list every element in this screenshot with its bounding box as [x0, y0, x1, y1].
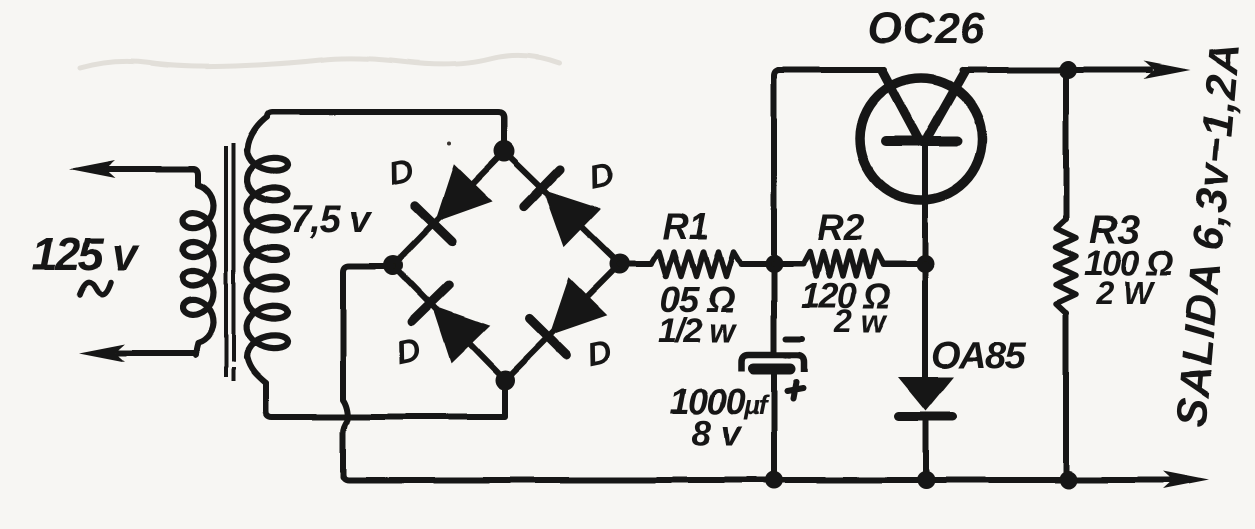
- wire capacitor to bottom rail: [771, 369, 777, 480]
- capacitor minus sign: [786, 336, 802, 342]
- ink speck: [447, 141, 451, 145]
- bridge node left: [383, 255, 403, 275]
- svg-text:2 W: 2 W: [1095, 275, 1156, 311]
- bottom rail node at OA85 branch: [917, 471, 935, 489]
- svg-text:125 v: 125 v: [32, 228, 140, 280]
- bottom rail node at R3 branch: [1059, 471, 1077, 489]
- transformer primary winding: [183, 169, 214, 355]
- transformer secondary winding: [247, 117, 288, 383]
- bottom rail node at capacitor branch: [765, 471, 783, 489]
- diode D (bridge bottom-right): [530, 277, 608, 355]
- diode OA85: [898, 377, 954, 417]
- wire secondary bottom to bridge bottom node: [266, 380, 505, 417]
- wire node down to diode OA85: [922, 264, 928, 378]
- wire bridge left node to bottom rail (with crossover jog): [343, 266, 393, 477]
- diode D (bridge top-right): [524, 169, 602, 247]
- node R1/C1/R2 junction: [765, 255, 783, 273]
- wire secondary top to bridge top node: [267, 112, 504, 151]
- transistor U1 OC26: [860, 69, 982, 200]
- transformer core: [226, 143, 234, 381]
- wire junction up to top rail: [774, 70, 780, 264]
- faint pencil smudge top: [80, 55, 560, 68]
- wire junction down to capacitor: [771, 264, 777, 352]
- bridge node top: [494, 141, 515, 162]
- svg-text:2 w: 2 w: [833, 303, 888, 339]
- bridge diamond wiring: [393, 151, 620, 380]
- svg-text:R2: R2: [817, 207, 865, 248]
- capacitor plus sign: [787, 382, 803, 398]
- svg-text:R1: R1: [662, 206, 709, 247]
- resistor R2: [774, 252, 925, 277]
- top rail wire right segment with output arrow: [962, 61, 1190, 79]
- diode D (bridge bottom-left): [412, 286, 490, 364]
- diode D (bridge top-left): [415, 164, 493, 242]
- wire R3 down to bottom rail: [1063, 313, 1069, 480]
- resistor R1: [620, 252, 774, 277]
- svg-text:OC26: OC26: [868, 4, 985, 53]
- AC input arrow bottom: [79, 344, 194, 362]
- top rail wire left segment: [778, 67, 884, 73]
- svg-text:OA85: OA85: [931, 335, 1027, 377]
- bottom rail wire with output arrow: [343, 471, 1209, 489]
- resistor R3: [1056, 219, 1076, 313]
- bridge node bottom: [495, 370, 515, 390]
- AC tilde symbol: [80, 282, 111, 295]
- wire OA85 to bottom rail: [923, 419, 929, 480]
- capacitor C1 bottom plate (slab): [754, 364, 790, 375]
- AC input arrow top: [69, 160, 193, 178]
- wire transistor base down to R2 node: [922, 145, 928, 264]
- node top rail / R3: [1059, 61, 1077, 79]
- node R2/transistor/OA85 junction: [916, 255, 934, 273]
- capacitor C1 top plate (bracket): [742, 355, 804, 372]
- bridge node right: [610, 254, 630, 274]
- svg-text:8 v: 8 v: [692, 414, 743, 453]
- wire top rail down to R3: [1063, 70, 1069, 219]
- svg-text:1/2 w: 1/2 w: [658, 312, 738, 350]
- svg-text:7,5 v: 7,5 v: [290, 199, 372, 241]
